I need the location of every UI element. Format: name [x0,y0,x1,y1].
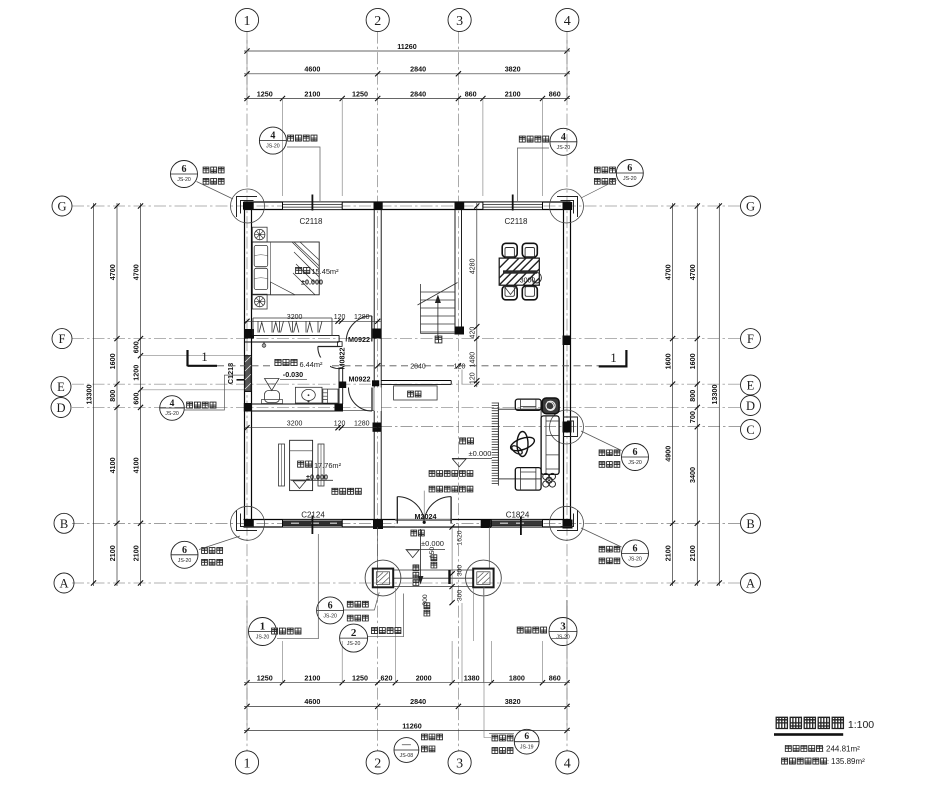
svg-text:1620: 1620 [457,530,464,545]
svg-text:3400: 3400 [688,467,697,483]
svg-text:3820: 3820 [505,697,521,706]
column D/bath [335,404,344,412]
axis circle A right [741,573,761,593]
living room potted plant [542,398,559,414]
column B/1 [244,520,254,528]
axis circle 2 top [366,8,389,31]
column B/2 [373,520,383,530]
door M0822 bathroom [318,346,340,348]
door M2024 entrance double [396,497,398,524]
axis circle 1 bottom [235,751,258,774]
svg-text:150: 150 [429,547,436,559]
svg-text:2: 2 [351,627,357,639]
section marker 1 right [599,350,628,366]
stair up text [435,336,442,343]
interior dim 4280/420/1480/120 vertical [476,203,478,387]
svg-text:JS-20: JS-20 [556,635,570,641]
axis line 2 (vertical) [377,32,379,751]
column B/4 [563,520,573,529]
corner trim G/1 [237,197,258,218]
svg-text:C2118: C2118 [300,217,324,226]
svg-text:JS-20: JS-20 [628,556,642,562]
svg-text:1600: 1600 [663,353,672,369]
door opening M2024 threshold [395,520,452,528]
svg-text:244.81m²: 244.81m² [826,744,860,753]
svg-text:620: 620 [381,674,393,683]
svg-text:6: 6 [524,732,529,742]
window C2118 left [283,195,343,211]
svg-text:4100: 4100 [108,457,117,473]
dining table [499,258,541,285]
living room rug [498,409,541,479]
window C1218 in left wall [237,356,253,392]
security door label line1 [429,471,473,477]
axis circle F right [741,329,761,349]
svg-text:1:100: 1:100 [848,719,874,731]
dining chair NE [522,243,537,257]
svg-text:4: 4 [270,131,275,142]
porch column left circle [365,560,401,596]
porch text xia-3-bu [413,565,419,586]
axis line 4 (vertical) [566,32,568,751]
porch extension lines [394,588,396,641]
security door label line2 [429,486,473,492]
svg-text:C2118: C2118 [505,217,529,226]
interior dim 2840/120 on section line [403,361,433,370]
living room armchair south [515,468,541,491]
svg-text:±0.000: ±0.000 [301,278,323,287]
wall interior axis 2 [373,202,375,527]
axis circle 4 bottom [556,751,579,774]
porch dim 1620 [451,527,453,603]
svg-text:1: 1 [610,350,617,365]
callout waiqiang-3 bottom [517,600,577,646]
bedside table south [252,294,267,309]
callout concrete steps JS-08 [394,734,443,762]
left tick extension 600 [141,355,245,357]
svg-text:120: 120 [334,314,346,321]
left dimension column 4700/600/1200/600/4100/2100 [140,203,142,586]
axis circle 1 top [235,8,258,31]
column C/axis2 [373,423,382,432]
column F/1 [244,329,254,339]
axis circle G right [741,196,761,216]
svg-text:6: 6 [633,447,638,458]
svg-text:G: G [746,200,755,214]
svg-text:2000: 2000 [416,674,432,683]
top dimension row 4600/2840/3820 [244,73,570,75]
svg-text:2100: 2100 [304,674,320,683]
axis line F (horizontal) [72,338,741,340]
axis line A (horizontal) [72,582,741,584]
bathroom squat toilet [262,379,283,404]
niche box [394,386,438,400]
svg-text:300: 300 [422,594,429,606]
svg-text:C: C [746,423,754,437]
closet with hangers [253,318,332,335]
corner trim B/1 [237,510,258,531]
porch steps [393,570,473,587]
svg-text:JS-19: JS-19 [520,745,534,751]
svg-text:800: 800 [688,390,697,402]
axis circle E left [51,377,71,397]
stair flight [418,283,458,334]
bottom dimension row 4600/2840/3820 [244,705,570,707]
living room level symbol [452,458,492,466]
svg-text:JS-20: JS-20 [347,641,361,647]
living room coffee table flower [509,432,536,457]
porch column right circle [466,560,502,596]
living room armchair north [515,399,541,410]
total area line [785,744,860,753]
svg-text:D: D [56,401,65,415]
svg-text:±0.000: ±0.000 [469,449,492,458]
axis circle 3 bottom [448,751,471,774]
wall niche (hall south) [381,380,451,382]
svg-text:4700: 4700 [108,264,117,280]
svg-text:2100: 2100 [108,545,117,561]
axis circle D left [51,398,71,418]
porch text bukuan300 [424,603,430,616]
floor area line [782,757,866,766]
svg-text:300: 300 [457,565,464,577]
section line 1-1 [217,365,599,367]
axis circle E right [741,375,761,395]
svg-text:6: 6 [328,600,333,611]
dining chair NW [502,243,517,257]
axis line D (horizontal) [72,406,741,408]
svg-text:JS-20: JS-20 [623,176,637,182]
right dimension column 4700/1600/4900/2100 [672,203,674,586]
callout waiqiang-4 top-left [259,127,320,201]
svg-text:2100: 2100 [131,545,140,561]
svg-text:1250: 1250 [257,674,273,683]
callout waiqiang-4 left [160,375,244,420]
callout zaoxingzhu 6 right-B [581,528,649,567]
svg-text:A: A [59,577,68,591]
callout zaoxingzhu 6 bottom-right [484,587,539,754]
axis line 1 (vertical) [246,32,248,751]
svg-text:17.76m²: 17.76m² [314,461,342,470]
dining level symbol [504,286,517,295]
svg-text:15.45m²: 15.45m² [311,267,339,276]
svg-text:860: 860 [549,674,561,683]
top extension lines [282,99,284,197]
axis line C (horizontal) [380,426,741,428]
door M0922 bedroom [371,316,373,342]
bed [252,242,319,295]
wall interior D (bathroom south) [245,403,344,405]
svg-text:G: G [57,200,66,214]
svg-text:JS-20: JS-20 [266,144,280,150]
column F/2 [373,329,382,339]
wall interior axis 3 [454,202,456,335]
svg-text:4700: 4700 [663,264,672,280]
svg-text:6: 6 [633,543,638,554]
tea room table [279,440,325,490]
svg-text:C2124: C2124 [301,511,325,520]
axis circle B left [54,513,74,533]
svg-text:JS-20: JS-20 [628,460,642,466]
threshold line D wall corridor [343,410,374,412]
column axis3 end [455,327,465,335]
svg-text:1250: 1250 [352,89,368,98]
svg-text:4600: 4600 [304,65,320,74]
column F/4 [563,336,571,346]
axis line B (horizontal) [72,522,741,524]
svg-text:2: 2 [374,14,381,29]
right dimension column 4700/1600/800/700/3400/2100 [696,203,698,586]
axis circle G left [52,196,72,216]
svg-text:JS-20: JS-20 [165,411,179,417]
svg-text:3: 3 [560,621,566,633]
svg-text:±0.000: ±0.000 [421,539,444,548]
column D/1 [244,403,252,412]
bottom dimension row 11260 [244,730,570,732]
svg-text:3: 3 [456,756,463,771]
svg-text:4: 4 [564,756,571,771]
svg-text:2840: 2840 [410,89,426,98]
svg-text:1600: 1600 [688,353,697,369]
svg-text:13300: 13300 [84,385,93,405]
svg-text:13300: 13300 [710,385,719,405]
column G/4 [563,202,573,210]
security door leader [423,491,425,521]
column C/4 [563,422,572,433]
callout zaoxingzhu 6 top-right [581,160,643,199]
svg-text:3200: 3200 [287,421,303,428]
svg-text::: : [822,744,824,753]
column B/mid [481,520,491,529]
bathroom vanity [295,387,322,403]
window guard rail label [332,488,361,494]
svg-text:2100: 2100 [505,89,521,98]
window C2118 right [483,195,543,211]
svg-text:1: 1 [244,14,251,29]
porch down-steps arrow [418,529,424,585]
porch level symbol [406,550,446,558]
axis line 3 (vertical) [457,32,459,751]
svg-text:2840: 2840 [410,697,426,706]
svg-text:F: F [747,332,754,346]
svg-text:860: 860 [549,89,561,98]
interior dim 3200/120/1280 upper [244,320,381,322]
svg-text:D: D [746,399,755,413]
axis circle C right [741,420,761,440]
svg-text:3820: 3820 [505,65,521,74]
svg-text:B: B [746,517,754,531]
svg-text:JS-08: JS-08 [400,753,414,759]
svg-text:1600: 1600 [108,353,117,369]
svg-text:1200: 1200 [131,365,140,381]
title yiceng pingmiantu [774,717,874,736]
svg-text:4: 4 [170,399,175,409]
column niche/bath [339,382,347,389]
living room label [460,438,492,458]
svg-text:800: 800 [108,390,117,402]
column G/3 [455,202,465,210]
corner trim B/4 [557,510,578,531]
svg-text:1480: 1480 [470,352,477,368]
svg-text:4: 4 [561,132,566,143]
corner trim G/4 [557,197,578,218]
door M0922 hall [371,388,373,412]
axis line G (horizontal) [72,205,741,207]
svg-text:1800: 1800 [509,674,525,683]
section marker 1 left [188,350,218,366]
svg-text::: : [827,757,829,766]
svg-text:2840: 2840 [410,65,426,74]
wall exterior right (axis 4) [563,202,565,527]
svg-text:4: 4 [564,14,571,29]
symbol below F wall [263,342,265,347]
svg-text:M0922: M0922 [349,375,371,384]
svg-text:1250: 1250 [352,674,368,683]
bathroom label [272,358,330,380]
bedroom label [296,267,339,287]
porch column right [473,569,493,588]
svg-text:4900: 4900 [663,446,672,462]
wall exterior top (axis G) [244,201,571,203]
left tick extension 1200 [141,389,245,391]
dining chair SW [502,286,517,300]
svg-text:1250: 1250 [257,89,273,98]
porch text bugao150 [431,555,437,568]
svg-text:JS-20: JS-20 [256,635,270,641]
axis circle 2 bottom [366,751,389,774]
svg-text:JS-20: JS-20 [177,177,191,183]
svg-text:C1824: C1824 [506,511,530,520]
wall interior F (closet south) [245,334,340,336]
svg-text:1: 1 [244,756,251,771]
callout zaoxingzhu 6 left-bottom [171,536,240,568]
svg-text:1: 1 [201,349,208,364]
svg-text:2100: 2100 [304,89,320,98]
svg-text:1280: 1280 [354,314,370,321]
svg-text:4700: 4700 [131,264,140,280]
porch column left [373,569,393,588]
wall exterior left (axis 1) [244,202,246,527]
svg-text:4600: 4600 [304,697,320,706]
column G/2 [374,202,383,210]
stair up arrow [435,295,441,341]
svg-text:JS-20: JS-20 [557,145,571,151]
living room flower cluster [543,473,556,487]
svg-text:E: E [57,380,65,394]
top dimension row 1250/2100/1250/2840/860/2100/860 [244,98,570,100]
svg-text:JS-20: JS-20 [178,558,192,564]
svg-text:B: B [60,517,68,531]
svg-text:A: A [746,577,755,591]
axis circle 4 top [556,8,579,31]
svg-text:135.89m²: 135.89m² [831,757,865,766]
column niche/axis2 [372,380,379,386]
svg-text:11260: 11260 [402,721,422,730]
right dimension column 13300 [718,203,720,586]
svg-text:11260: 11260 [397,42,417,51]
bathroom washing machine [323,389,338,403]
top dimension row 11260 [244,50,570,52]
porch side edge right [488,527,490,569]
corner trim C/4 [563,417,578,437]
svg-text:6: 6 [182,164,187,175]
svg-text:860: 860 [465,89,477,98]
bedside table north [252,227,267,242]
dining chair SE [522,286,537,300]
svg-text:6: 6 [627,163,632,174]
callout zaoxingzhu 6 top-left [171,161,234,200]
svg-text:420: 420 [470,327,477,339]
svg-text:F: F [59,332,66,346]
svg-text:1: 1 [260,621,266,633]
living room tv wall comb [492,403,499,486]
left dimension column 4700/1600/800/4100/2100 [116,203,118,586]
bottom dimension row 1250/2100/1250/620/2000/1380/1800/860 [244,682,570,684]
axis circle B right [741,513,761,533]
svg-text:M2024: M2024 [415,512,437,521]
svg-text:700: 700 [688,411,697,423]
wall bathroom east door frame return [337,342,342,347]
callout zaoxingzhu 6 right-C [581,431,649,471]
wall exterior bottom (axis B) [244,519,571,521]
svg-text:4700: 4700 [688,264,697,280]
axis line E (horizontal) [72,383,741,385]
porch dim 300 upper [448,570,450,584]
svg-text:E: E [747,379,755,393]
living room sofa east [541,416,559,475]
bottom extension lines [282,641,284,683]
svg-text:2100: 2100 [663,545,672,561]
svg-text:120: 120 [334,421,346,428]
svg-text:6.44m²: 6.44m² [299,360,323,369]
svg-text:1380: 1380 [464,674,480,683]
svg-text:-0.030: -0.030 [283,370,303,379]
callout waiqiang-2 bottom [340,594,404,653]
svg-text:2100: 2100 [688,545,697,561]
axis circle D right [741,396,761,416]
porch side edge left [377,527,379,569]
axis circle F left [52,329,72,349]
callout waiqiang-4 top-right [517,128,577,201]
svg-text:—: — [402,739,411,749]
svg-text:2: 2 [374,756,381,771]
tea room level symbol [291,480,333,488]
svg-text:M0922: M0922 [348,335,370,344]
svg-text:6: 6 [182,545,187,556]
axis circle 3 top [448,8,471,31]
tea room label [298,461,342,481]
svg-text:120: 120 [470,372,477,384]
interior dim 3200/120/1280 lower [244,427,381,429]
svg-text:4280: 4280 [470,258,477,274]
callout zaoxingzhu 6 porch [317,592,380,624]
porch level text [411,530,424,536]
svg-text:3: 3 [456,14,463,29]
niche label [408,391,421,397]
svg-text:1280: 1280 [354,421,370,428]
stair width dim line [461,365,463,384]
svg-text:600: 600 [131,393,140,405]
svg-text:600: 600 [131,341,140,353]
column G/1 [244,202,254,210]
svg-text:JS-20: JS-20 [323,613,337,619]
svg-text:4100: 4100 [131,457,140,473]
axis circle A left [54,573,74,593]
left dimension column 13300 [93,203,95,586]
svg-text:300: 300 [457,590,464,602]
callout waiqiang-1 bottom [249,534,319,646]
wall bathroom east [338,367,340,404]
